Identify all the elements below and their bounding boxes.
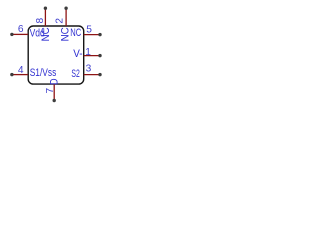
svg-text:5: 5 [86,25,92,36]
svg-text:8: 8 [35,18,46,24]
svg-text:4: 4 [18,65,24,76]
svg-text:S2: S2 [71,68,79,80]
svg-text:NC: NC [70,27,81,39]
svg-text:1: 1 [85,47,91,58]
svg-text:V-: V- [73,48,83,60]
svg-text:3: 3 [86,64,92,75]
svg-text:S1/Vss: S1/Vss [30,67,57,79]
svg-text:6: 6 [18,24,24,35]
svg-text:NC: NC [40,27,52,41]
svg-text:2: 2 [54,18,65,24]
svg-text:NC: NC [60,27,72,41]
svg-text:7: 7 [45,88,56,94]
svg-text:D: D [49,78,61,85]
